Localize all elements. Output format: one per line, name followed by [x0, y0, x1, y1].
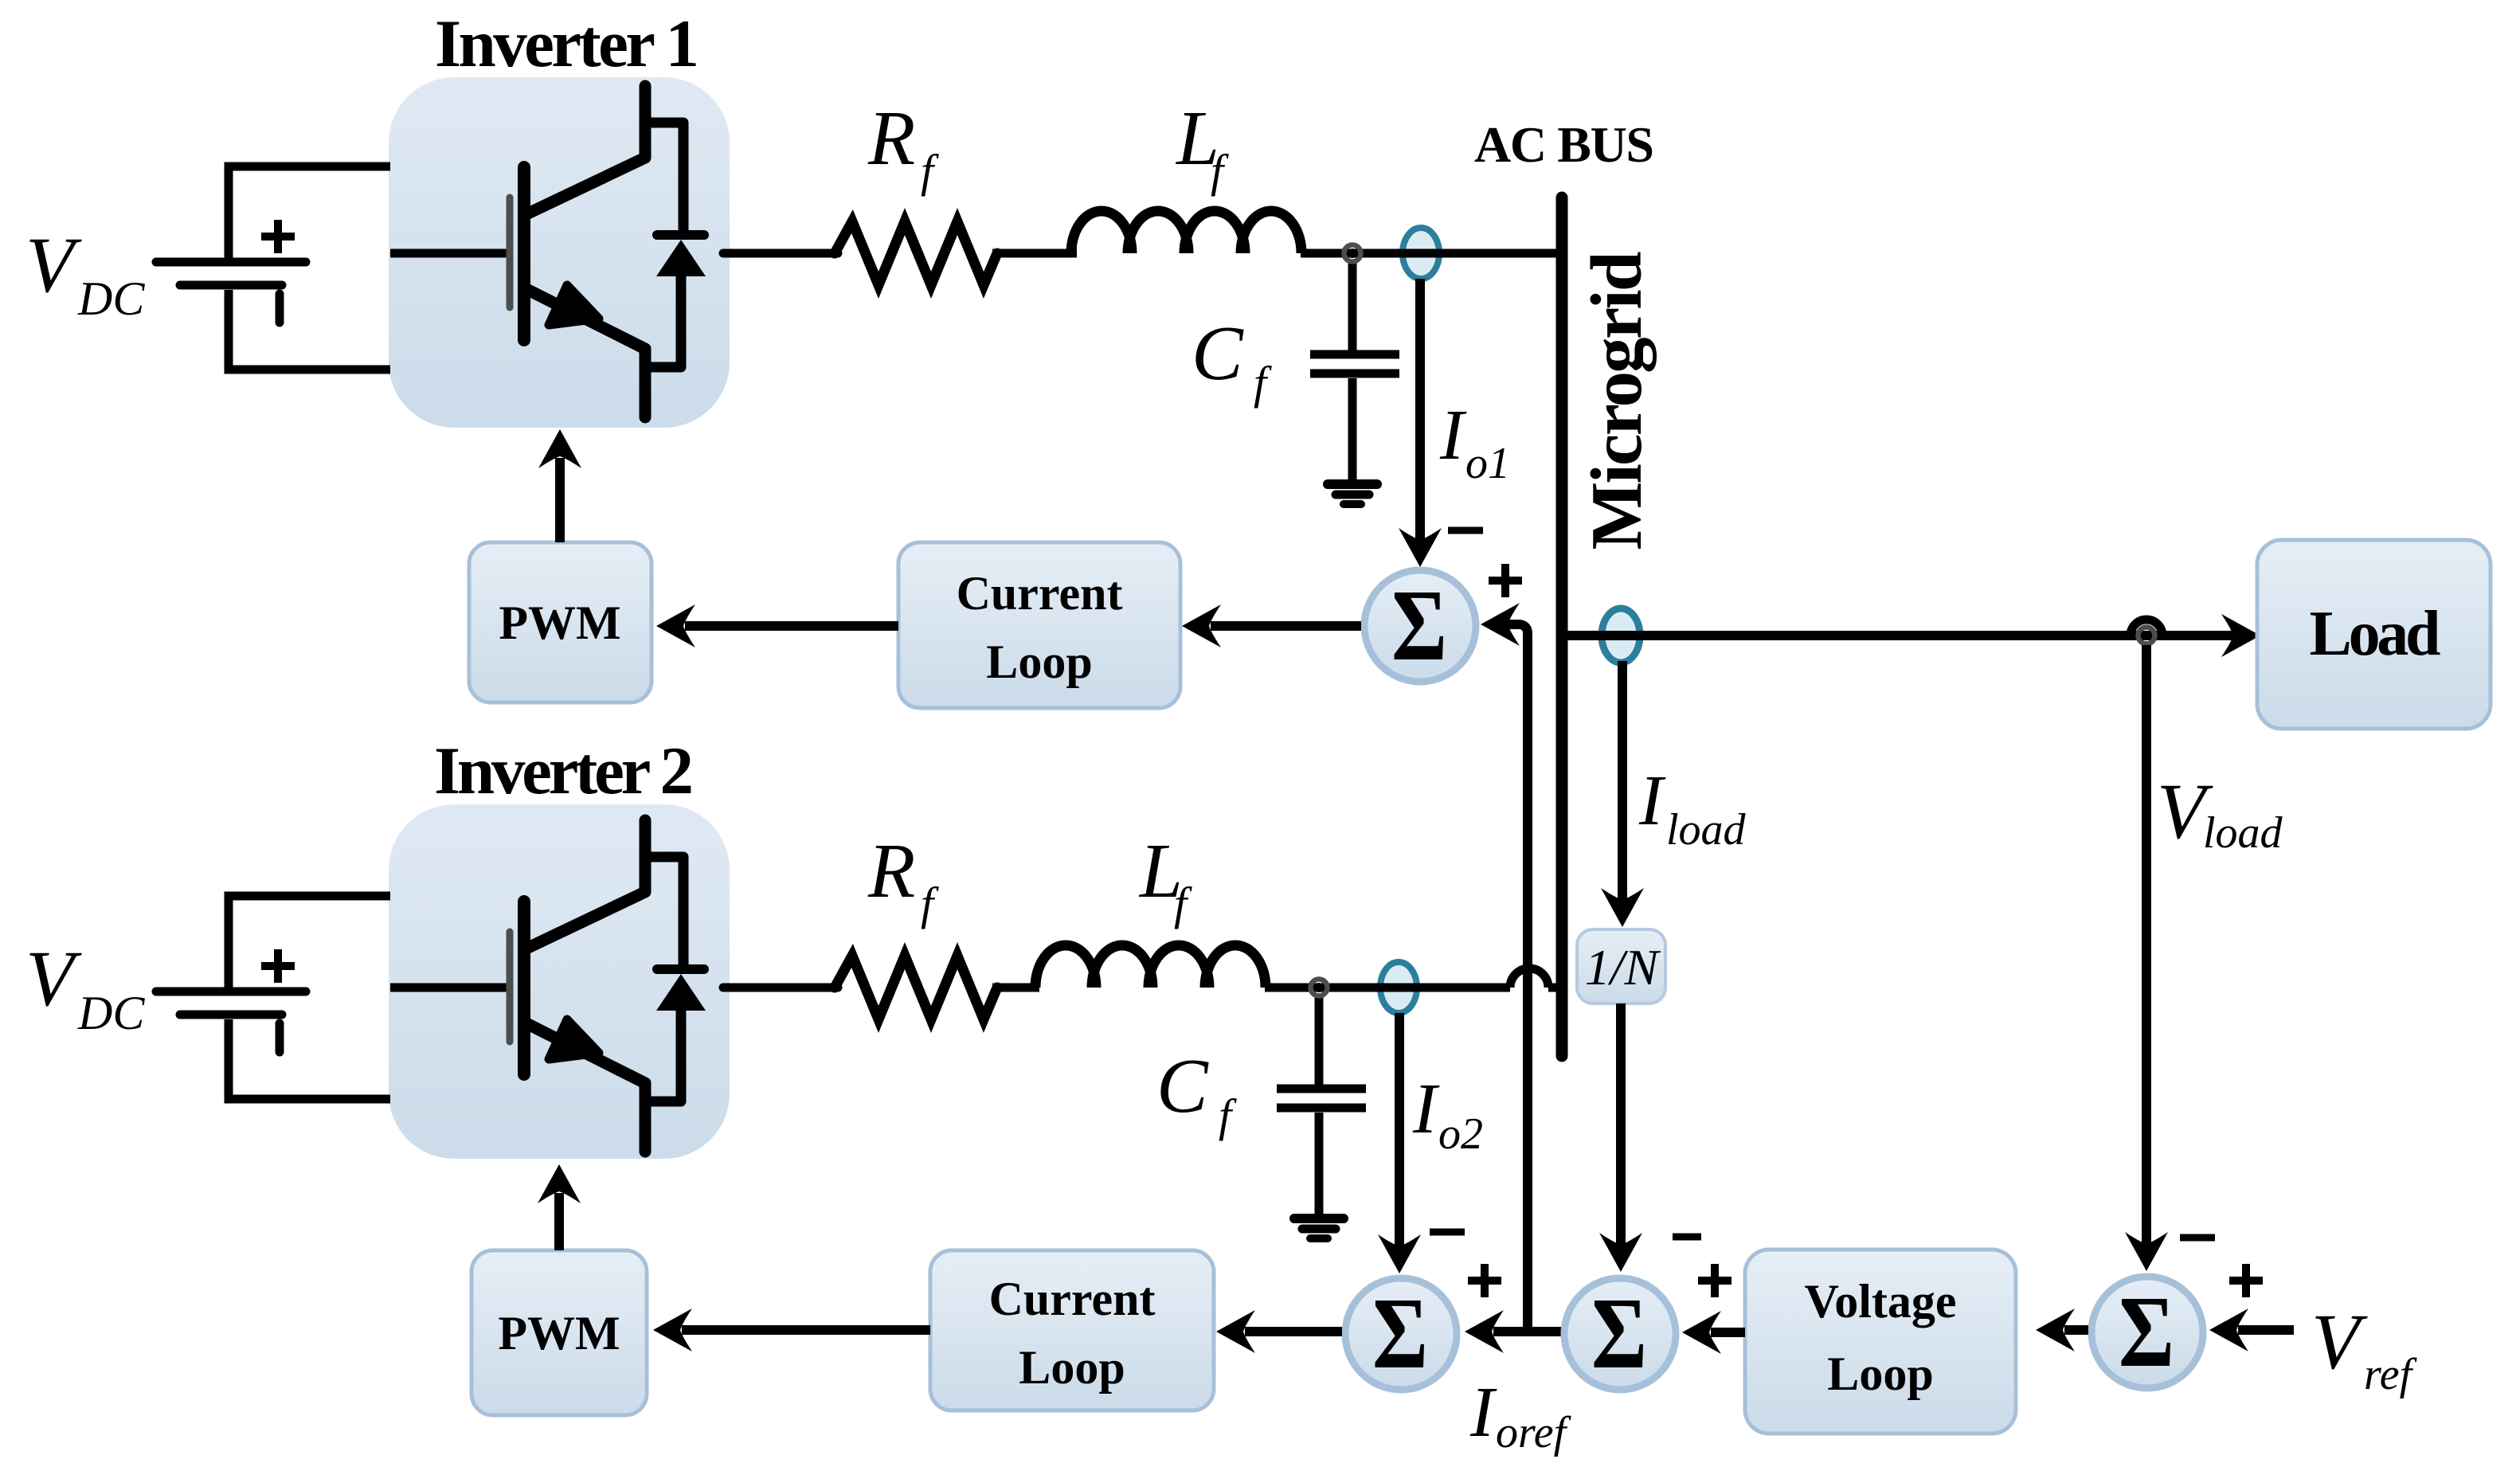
arrow PWM 2 to inverter 2	[538, 1164, 581, 1250]
svg-text:Voltage: Voltage	[1804, 1275, 1956, 1328]
block 1/N divider	[1577, 929, 1665, 1003]
svg-text:C: C	[1156, 1043, 1209, 1128]
block Load	[2257, 540, 2491, 729]
transistor IGBT with diode (inverter 2)	[510, 820, 706, 1152]
wire inverter 2 output	[723, 984, 838, 992]
block Current Loop (inverter 1)	[898, 542, 1180, 708]
svg-text:V: V	[25, 934, 82, 1023]
wire resistor to inductor (inverter 1)	[992, 249, 1077, 258]
arrow Iload down to 1/N	[1601, 661, 1644, 927]
summing junction sum 2a	[1345, 1277, 1457, 1390]
svg-text:Loop: Loop	[1827, 1348, 1933, 1400]
svg-text:PWM: PWM	[499, 597, 620, 649]
battery V_DC (inverter 1)	[156, 166, 390, 370]
summing junction sum 2b	[1564, 1277, 1676, 1390]
arrow sum 2a to current loop 2	[1216, 1310, 1342, 1353]
svg-text:oref: oref	[1496, 1408, 1572, 1457]
wire inductor to AC bus with hop over Ioref (inverter 2)	[1265, 968, 1559, 988]
svg-text:I: I	[1439, 396, 1467, 475]
svg-text:Inverter 1: Inverter 1	[435, 6, 699, 81]
svg-text:load: load	[1666, 805, 1747, 855]
svg-text:Load: Load	[2310, 599, 2441, 669]
svg-text:C: C	[1192, 311, 1244, 396]
label minus at sum 1	[1448, 527, 1483, 534]
label plus at sum 2b	[1698, 1264, 1732, 1297]
label Rf (inverter 2)	[867, 828, 939, 929]
svg-text:Current: Current	[989, 1273, 1156, 1325]
capacitor Cf (inverter 1) with ground	[1310, 260, 1399, 504]
block PWM (inverter 1)	[469, 542, 652, 702]
arrow Io2 measurement down to sum 2a	[1378, 1013, 1421, 1273]
wire Ioref feedback to sum 1	[1481, 603, 1528, 1332]
arrow voltage loop to sum 2b	[1682, 1311, 1745, 1354]
transistor IGBT with diode (inverter 1)	[510, 86, 706, 417]
svg-text:1/N: 1/N	[1585, 939, 1661, 995]
arrow 1/N to sum 2b	[1599, 1003, 1642, 1272]
svg-text:DC: DC	[77, 272, 145, 325]
wire inductor to AC bus (inverter 1)	[1301, 249, 1558, 258]
arrow sum 3 to voltage loop	[2036, 1308, 2088, 1351]
wire gate stub (inverter 1)	[390, 249, 507, 258]
svg-text:Microgrid: Microgrid	[1576, 252, 1657, 550]
label plus at sum 1	[1489, 564, 1522, 597]
arrow Vref into sum 3	[2209, 1308, 2294, 1351]
block PWM (inverter 2)	[472, 1250, 647, 1415]
wire AC bus to Load	[1567, 631, 2233, 640]
arrow current loop 1 to PWM 1	[656, 604, 898, 647]
label minus at sum 2a	[1430, 1229, 1465, 1236]
wire gate stub (inverter 2)	[390, 984, 507, 992]
label Io2	[1412, 1070, 1483, 1159]
svg-text:Loop: Loop	[1019, 1341, 1125, 1394]
node filter output 1	[1344, 245, 1361, 262]
svg-text:R: R	[867, 96, 915, 181]
label minus at sum 2b	[1673, 1234, 1701, 1241]
svg-text:V: V	[25, 221, 82, 309]
svg-text:I: I	[1412, 1070, 1440, 1148]
label Io1	[1439, 396, 1510, 488]
arrow sum 1 to current loop 1	[1182, 604, 1361, 647]
svg-text:R: R	[867, 828, 915, 913]
battery V_DC (inverter 2)	[156, 896, 390, 1099]
label Rf (inverter 1)	[867, 96, 939, 197]
wire resistor to inductor (inverter 2)	[992, 984, 1039, 992]
node Vload tap with hop	[2131, 620, 2162, 644]
svg-text:Current: Current	[957, 567, 1123, 620]
svg-text:Loop: Loop	[986, 636, 1092, 688]
wire inverter 1 output	[723, 249, 838, 258]
block Current Loop (inverter 2)	[930, 1250, 1214, 1410]
label Vload	[2157, 767, 2283, 858]
current sensor Iload	[1602, 608, 1640, 663]
label Cf (inverter 2)	[1156, 1043, 1237, 1141]
arrow PWM 1 to inverter 1	[538, 429, 581, 542]
label V_DC (inverter 1)	[25, 221, 145, 325]
svg-text:I: I	[1469, 1373, 1497, 1452]
label Iload	[1638, 761, 1747, 855]
svg-text:load: load	[2203, 808, 2283, 858]
label Lf (inverter 1)	[1175, 96, 1229, 197]
current sensor Io2	[1380, 962, 1417, 1013]
inductor Lf (inverter 1)	[1071, 211, 1301, 253]
arrow into Load	[2221, 614, 2260, 657]
label Vref	[2311, 1297, 2418, 1399]
node filter output 2	[1311, 980, 1328, 996]
current sensor Io1	[1403, 228, 1439, 279]
block Voltage Loop	[1745, 1250, 2016, 1434]
inverter U1 block "Inverter 1"	[389, 77, 730, 428]
label V_DC (inverter 2)	[25, 934, 145, 1039]
label Lf (inverter 2)	[1138, 828, 1192, 929]
arrow Io1 measurement down to sum 1	[1399, 279, 1442, 567]
AC bus bar	[1556, 198, 1568, 1056]
svg-text:AC BUS: AC BUS	[1474, 116, 1654, 173]
label plus at sum 2a	[1468, 1264, 1501, 1297]
svg-text:DC: DC	[77, 987, 145, 1039]
wire sum 2b to sum 2a with Ioref tap	[1465, 1310, 1561, 1353]
label Cf (inverter 1)	[1192, 311, 1272, 409]
summing junction sum 1	[1364, 569, 1476, 682]
svg-text:o2: o2	[1438, 1109, 1483, 1159]
label Ioref	[1469, 1373, 1572, 1457]
inductor Lf (inverter 2)	[1035, 945, 1266, 988]
svg-text:I: I	[1638, 761, 1666, 840]
resistor Rf (inverter 1)	[835, 221, 997, 285]
capacitor Cf (inverter 2) with ground	[1277, 994, 1366, 1238]
arrow current loop 2 to PWM 2	[653, 1308, 930, 1351]
label plus at sum 3	[2229, 1264, 2263, 1297]
label minus at sum 3	[2180, 1234, 2215, 1242]
wire Vload from load node down to sum 3	[2125, 645, 2168, 1271]
svg-text:o1: o1	[1465, 439, 1510, 488]
inverter U2 block "Inverter 2"	[389, 804, 730, 1159]
resistor Rf (inverter 2)	[835, 956, 997, 1019]
svg-text:PWM: PWM	[498, 1307, 620, 1359]
svg-text:V: V	[2311, 1297, 2368, 1386]
svg-text:Inverter 2: Inverter 2	[434, 733, 694, 808]
summing junction sum 3	[2092, 1275, 2203, 1388]
svg-text:ref: ref	[2364, 1350, 2418, 1399]
